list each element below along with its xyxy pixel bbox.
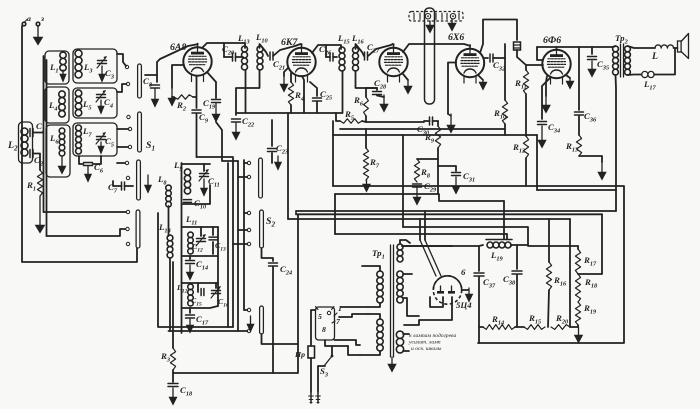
coil L2 <box>7 128 28 156</box>
capacitor C28 <box>373 78 388 95</box>
resistor R9 <box>424 121 441 148</box>
capacitor C24 <box>269 263 293 276</box>
switch S2 bar <box>260 210 276 248</box>
wire y331 <box>169 330 248 332</box>
wire stub S2b-1 <box>244 309 247 311</box>
wire x570 <box>569 219 571 327</box>
wire bus y121 <box>336 113 340 121</box>
wire choke out <box>511 244 528 246</box>
wire contact row2 <box>47 227 130 236</box>
capacitor C13 <box>209 227 226 254</box>
wire x173 down <box>172 262 174 348</box>
wire L15 bottom <box>336 71 343 113</box>
wire speaker top <box>628 46 656 48</box>
wire R11-R12 <box>525 94 527 136</box>
wire L10 top to C21 <box>260 44 269 56</box>
ground S2b <box>247 316 254 332</box>
wire C27 to tube2 <box>368 44 393 56</box>
coil L1 <box>49 52 66 74</box>
ground near S1c <box>144 175 151 193</box>
capacitor C34 <box>538 77 561 134</box>
capacitor C7 <box>108 181 133 194</box>
wire R20 to arrow <box>570 326 578 328</box>
switch contact 2 <box>126 82 129 85</box>
wire antenna down-left <box>22 26 137 262</box>
capacitor C23 <box>268 120 289 163</box>
ground C23 <box>274 156 281 170</box>
wire speaker bottom <box>628 74 642 77</box>
wire prim lead1 <box>362 266 380 271</box>
ground C28 <box>377 95 388 112</box>
wire stub S2t-2 <box>238 176 247 178</box>
wire y166 to C31 <box>438 166 456 171</box>
wire 6K7 cath <box>302 76 304 113</box>
wire mains left <box>311 310 316 346</box>
capacitor C15 <box>191 283 204 307</box>
wire prim lead3 <box>368 314 380 319</box>
speaker horn <box>674 34 689 59</box>
switch contact 3 <box>127 115 130 118</box>
ground 6X6 <box>478 75 487 90</box>
switch contact 1 <box>125 65 128 68</box>
switch contact S2b-1 <box>247 308 250 311</box>
resistor R1 <box>26 170 43 196</box>
wire L11 top <box>182 226 219 228</box>
tube 6K7 <box>281 37 316 82</box>
wire bus x43 <box>43 56 45 212</box>
mains prong 1 <box>308 392 314 403</box>
wire L10 bottom <box>236 70 260 115</box>
choke L19 <box>486 240 512 263</box>
wire bus y194 <box>335 194 504 201</box>
ground Tp1 <box>388 357 396 372</box>
capacitor C37 <box>474 246 496 343</box>
wire y122 avc <box>366 121 424 123</box>
ground C17 <box>186 319 194 333</box>
wire sel to prim <box>335 340 361 345</box>
switch contact 7 <box>126 176 129 179</box>
wire R17 bottom <box>578 214 602 274</box>
wire x507 <box>506 234 508 239</box>
ground C11 <box>200 179 207 196</box>
ground C8 <box>151 89 159 107</box>
resistor R20 <box>551 313 570 329</box>
capacitor C25 <box>310 82 332 113</box>
wire osc left rail <box>181 163 183 333</box>
ground C14 <box>186 265 194 280</box>
coil L5 <box>75 90 91 116</box>
capacitor C36 <box>575 47 598 123</box>
ground IF2 cath <box>403 74 412 94</box>
transformer Tr2 <box>613 33 631 77</box>
svg-text:Пр: Пр <box>294 350 305 359</box>
coil L4 <box>48 91 65 117</box>
selector box <box>316 307 335 340</box>
wire R13 out <box>579 156 602 162</box>
svg-text:6: 6 <box>461 267 466 277</box>
capacitor C9 <box>192 76 209 157</box>
ground R7 <box>363 180 371 192</box>
wire L12 bottom <box>182 306 219 308</box>
wire box2 to contact <box>117 84 127 92</box>
switch contact S2b-2 <box>247 329 250 332</box>
tube 6X6 <box>448 32 484 83</box>
tube IF2 <box>379 43 407 82</box>
wire prim lead4 <box>360 351 380 355</box>
switch contact 5 <box>128 145 131 148</box>
switch S2 top bar <box>259 158 263 198</box>
wire 6X6 plate <box>480 20 517 54</box>
slug arrow L1 <box>60 70 66 82</box>
wire L9 top <box>182 163 211 165</box>
Tp1 sec heat <box>396 331 403 353</box>
coil L17 <box>642 71 657 91</box>
wire sec top lead <box>400 240 410 244</box>
wire det out buses <box>340 128 505 130</box>
resistor R17 <box>575 246 597 274</box>
wire y246 right <box>510 245 512 247</box>
label pin7 <box>332 317 341 326</box>
capacitor C17 <box>186 308 210 326</box>
ground C22 <box>232 123 240 140</box>
ground C18 <box>169 388 177 405</box>
wire stub S2-2 <box>238 229 247 231</box>
svg-text:L: L <box>651 51 658 62</box>
capacitor C2 <box>30 150 43 171</box>
label pin1 <box>334 304 342 316</box>
svg-text:усилит. ламп: усилит. ламп <box>408 340 441 346</box>
wire x228 <box>227 163 229 327</box>
switch contact row3 <box>126 242 129 245</box>
wire stub S2-1 <box>244 212 247 214</box>
wire R6 top <box>366 88 377 97</box>
coil L2 box <box>19 122 33 163</box>
wire heater leads <box>403 334 409 351</box>
resistor R14 <box>479 314 524 329</box>
coil L3 <box>75 50 93 78</box>
svg-text:8: 8 <box>322 325 326 334</box>
anode leads 5Z4 <box>420 211 441 276</box>
coil L16 <box>351 33 365 71</box>
wire bus F y234 <box>335 233 507 235</box>
wire L16 bottom <box>356 71 378 88</box>
coil L11 <box>185 214 197 254</box>
switch contact S2t-2 <box>247 175 250 178</box>
wire C21 to 6K7 cap <box>273 44 301 56</box>
ground 6F6 left <box>542 76 551 113</box>
wire bus D y219 <box>288 218 570 220</box>
dial lamp ticks <box>414 13 459 20</box>
ground R19 arrow <box>574 327 582 343</box>
trimmer C11 <box>199 164 220 188</box>
wire prim lead2 <box>368 303 380 307</box>
resistor R10 <box>493 58 508 135</box>
wire R9 junc down <box>437 159 439 194</box>
capacitor C29 <box>413 181 438 193</box>
switch contact S2-3 <box>247 242 250 245</box>
coil box L3 <box>73 49 117 83</box>
ground <box>33 26 43 45</box>
wire bus G y246 <box>402 245 452 247</box>
wire bus y135 drop <box>536 135 538 190</box>
voice coil L <box>651 45 674 62</box>
choke feed wire <box>452 245 483 246</box>
switch S1 bar b <box>138 112 155 152</box>
wire 6A8 anode <box>202 43 245 48</box>
capacitor C18 <box>168 370 193 397</box>
ground terminal z <box>36 14 44 26</box>
resistor R8 <box>414 159 430 182</box>
dial lamp box <box>409 12 463 22</box>
resistor R3 <box>160 348 176 370</box>
wire bus A y186 <box>333 186 624 343</box>
svg-text:6Ф6: 6Ф6 <box>543 35 561 46</box>
wire L12 top <box>182 282 219 284</box>
switch contact 4 <box>128 127 131 130</box>
wire S3 down <box>318 366 325 392</box>
wire C33 down <box>517 50 543 65</box>
wire contact row1 <box>44 210 130 213</box>
wire C24 down <box>272 267 274 373</box>
wire Tr2 primary bottom <box>615 75 618 190</box>
ground C29 <box>413 188 421 205</box>
ground R1 <box>35 196 45 233</box>
switch S1 bar d <box>136 210 140 248</box>
svg-text:a: a <box>27 14 31 23</box>
wire bus C2 y213 <box>296 211 602 214</box>
resistor R11 <box>514 65 529 94</box>
capacitor C32 <box>484 44 505 72</box>
wire bus y113 <box>236 112 336 114</box>
capacitor C19 <box>203 72 221 110</box>
wire L18 down <box>169 258 171 331</box>
wire riser x288 <box>287 113 289 219</box>
coil box L7 <box>73 123 117 156</box>
wire x333 drop <box>332 121 334 186</box>
transformer Tp1 core <box>372 245 394 357</box>
capacitor C8 <box>143 75 160 88</box>
ground 6K7 left <box>280 68 288 92</box>
wire L16 top <box>356 44 365 56</box>
svg-text:5: 5 <box>318 312 322 321</box>
wire L17 right <box>654 48 675 75</box>
switch contact 6 <box>125 161 128 164</box>
coil L13 <box>237 33 250 70</box>
coil L9 <box>173 160 191 194</box>
coil L10 <box>255 32 269 70</box>
switch contact S2-2 <box>247 228 250 231</box>
resistor R13 <box>565 116 582 156</box>
slug arrow C4 <box>98 100 104 114</box>
resistor R7 <box>363 129 379 180</box>
wire selector tap7 <box>339 314 368 317</box>
selector pins <box>316 307 335 335</box>
coil L7 <box>76 125 93 154</box>
capacitor C38 <box>503 245 522 327</box>
wire x158 down <box>158 213 233 327</box>
tuning gang box <box>425 8 435 104</box>
resistor R6 <box>353 95 368 116</box>
wire 6F6 plate <box>556 47 558 50</box>
slug arrow L6 <box>58 156 66 174</box>
capacitor C14 <box>186 256 209 271</box>
svg-text:5Ц4: 5Ц4 <box>456 300 472 310</box>
ground L7 C6 <box>84 166 91 182</box>
wire box3 to contact <box>117 128 129 130</box>
wire selector tap1 <box>341 306 368 308</box>
svg-text:6Х6: 6Х6 <box>448 32 464 43</box>
trimmer C12 <box>192 227 206 253</box>
ground C19 <box>212 103 220 122</box>
Tp1 sec top <box>397 244 403 262</box>
Tp1 primary 1 <box>377 271 383 303</box>
wire contact5 <box>117 146 128 148</box>
tube 6A8 <box>170 42 212 82</box>
wire bus C y211 <box>296 210 616 212</box>
ground C34 <box>538 126 546 148</box>
mains prong 2 <box>315 392 321 403</box>
ground C35 <box>588 61 596 77</box>
switch S2 bar b <box>260 306 264 334</box>
coil L18 <box>158 222 173 258</box>
wire grid cap 6A8 <box>157 45 196 83</box>
ground R13 <box>598 162 606 180</box>
resistor R4 <box>288 73 304 105</box>
svg-text:1: 1 <box>338 304 342 313</box>
wire S2 down <box>262 248 274 261</box>
dial lamp 2 <box>450 14 455 19</box>
resistor R16 <box>546 219 567 327</box>
wire osc right rail <box>217 227 219 306</box>
capacitor C22 <box>232 116 255 128</box>
pot wiper <box>447 63 456 134</box>
switch contact S2t-1 <box>247 161 250 164</box>
wire bus x47 <box>46 60 48 236</box>
Tp1 primary 2 <box>377 319 383 351</box>
resistor R5 <box>340 109 362 123</box>
coil box L5 <box>73 88 117 118</box>
dial lamp 1 <box>425 14 430 19</box>
wire x335 <box>334 194 336 234</box>
coil box L1 <box>45 51 69 84</box>
wire bus y135 <box>333 134 537 136</box>
wire x244 <box>238 160 244 331</box>
coil L12 <box>176 283 193 306</box>
trimmer C5 <box>96 132 114 148</box>
wire L11 bottom <box>182 255 219 257</box>
resistor R15 <box>524 313 545 329</box>
trimmer C4 <box>96 90 113 109</box>
trimmer C3 <box>97 56 114 80</box>
wire sec mid lead <box>403 274 419 316</box>
capacitor C26 <box>319 44 337 61</box>
capacitor C6 <box>79 156 104 174</box>
resistor R18 <box>575 274 598 302</box>
capacitor C31 <box>452 171 476 183</box>
capacitor C21 <box>270 52 285 71</box>
coil L8 <box>157 174 171 207</box>
coil box L4 <box>45 87 69 123</box>
svg-text:и осв. шкалы: и осв. шкалы <box>411 346 442 352</box>
wire x168 down <box>168 206 170 236</box>
capacitor C33 <box>514 42 521 50</box>
switch S3 <box>320 355 333 379</box>
tube 6F6 <box>542 35 570 84</box>
wire prim bottom <box>332 346 360 355</box>
ground lamp1 <box>426 21 434 33</box>
capacitor C10 <box>182 185 211 210</box>
svg-text:6К7: 6К7 <box>281 37 299 48</box>
slug arrow C5 <box>98 142 104 154</box>
wire stub S2t-1 <box>244 162 247 164</box>
wire S2b down <box>262 334 299 344</box>
ground C3 <box>99 66 106 82</box>
ground C31 <box>452 177 460 194</box>
wire 6F6 screen <box>537 47 543 60</box>
coil L6 <box>49 128 65 156</box>
wire x504 <box>503 201 505 239</box>
wire bus G right <box>402 245 452 247</box>
wire osc anode <box>216 122 238 161</box>
wire y373 bottom <box>173 214 298 373</box>
resistor R19 <box>575 302 597 327</box>
wire Tr2 left top <box>613 46 616 47</box>
wire box1 to contact <box>117 54 126 66</box>
trimmer C16 <box>211 283 229 308</box>
wire mains right <box>325 340 332 356</box>
capacitor C27 <box>365 42 381 60</box>
capacitor C35 <box>588 47 610 71</box>
svg-text:з: з <box>40 14 44 23</box>
wire R4 bottom <box>290 105 292 113</box>
capacitor C20 <box>222 44 243 61</box>
ground 6A8 cathode <box>168 65 184 106</box>
wire contact6 <box>117 162 125 164</box>
switch S1 bar c <box>137 160 141 200</box>
resistor R2 <box>172 95 196 113</box>
capacitor C1 <box>30 121 45 137</box>
fuse Pr <box>294 346 315 392</box>
wire plate bus <box>537 46 613 48</box>
coil box L6 <box>46 125 70 177</box>
wire x403 <box>402 135 404 227</box>
switch contact S2-1 <box>247 211 250 214</box>
label heater text <box>408 332 456 352</box>
switch S1 bar a <box>138 64 142 98</box>
svg-text:к лампам подогрева: к лампам подогрева <box>409 332 456 339</box>
arrow 5Z4 out <box>462 288 473 302</box>
wire L13 bottom <box>245 70 247 113</box>
antenna terminal a <box>22 14 31 26</box>
ground lamp2 <box>448 19 456 31</box>
wire bus B y190 <box>537 190 616 211</box>
coil L15 <box>337 33 350 71</box>
wire bus to R17 <box>528 245 578 247</box>
wire bus E y227 <box>403 227 528 245</box>
wire R9 bottom <box>417 148 438 159</box>
wire stub S2-3 <box>233 243 247 245</box>
wire R12 down <box>525 158 527 186</box>
wire R5 to C30 <box>362 116 366 122</box>
wire 5Z4 return <box>404 297 452 325</box>
wire C20 left <box>223 43 225 57</box>
Tp1 sec mid <box>397 271 403 303</box>
resistor R12 <box>512 136 529 158</box>
filament loop 5Z4 <box>430 297 443 307</box>
wire osc grid <box>197 157 234 327</box>
capacitor C30 <box>417 117 438 136</box>
tube 5Z4 <box>433 267 472 310</box>
